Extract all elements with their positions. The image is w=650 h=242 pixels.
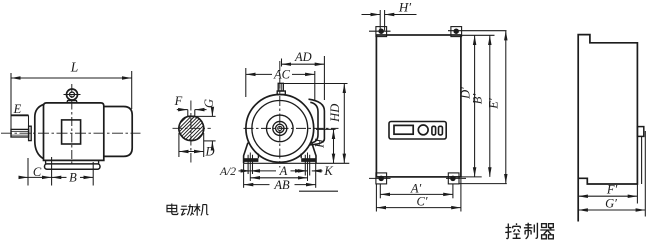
dimension C (21, 157, 52, 186)
电 (172, 204, 178, 215)
front view vertical centerline (279, 61, 281, 168)
dimension E (11, 115, 29, 126)
side profile outline (578, 35, 637, 222)
terminal box bump outer (309, 99, 325, 145)
机 (194, 204, 200, 216)
mounting bracket bottom-right (446, 173, 466, 184)
器 (542, 224, 554, 228)
dimension K (296, 170, 323, 172)
dimension F (177, 110, 207, 117)
eyebolt ring (67, 89, 78, 100)
svg-text:L: L (70, 60, 79, 75)
svg-text:C: C (33, 165, 42, 179)
display window (394, 125, 413, 134)
svg-text:E′: E′ (487, 98, 501, 110)
horizontal centerline of shaft (1, 132, 141, 134)
stator outer circle (246, 94, 314, 162)
dimension B' (489, 35, 491, 177)
svg-text:B′: B′ (471, 94, 485, 105)
svg-text:B: B (69, 170, 77, 184)
svg-text:F′: F′ (606, 183, 618, 197)
eyebolt stub front (278, 83, 283, 91)
rear end bell (104, 107, 132, 157)
button 2 (439, 126, 443, 135)
svg-text:A: A (279, 164, 288, 178)
动 (181, 206, 188, 215)
foot webs (46, 160, 99, 164)
motor body frame (44, 103, 104, 160)
door handle (637, 127, 643, 137)
left foot hole lines (248, 155, 252, 174)
svg-text:H′: H′ (398, 0, 411, 15)
dimension HD (284, 84, 348, 164)
right foot hole lines (305, 155, 309, 176)
svg-text:H: H (313, 138, 327, 149)
bearing boss circle (273, 121, 287, 135)
front end bell bulge (35, 104, 44, 158)
mounting bracket bottom-left (369, 173, 391, 184)
svg-text:A′: A′ (410, 182, 422, 196)
shaft section circle with key flat (179, 116, 204, 140)
left foot (244, 143, 248, 164)
svg-text:AC: AC (273, 68, 291, 82)
right edge extension (636, 184, 638, 204)
frame circle (252, 100, 308, 156)
mounting bracket top-left (369, 27, 391, 37)
cabinet body (376, 35, 461, 177)
dimension G (196, 107, 216, 151)
svg-text:HD: HD (328, 104, 342, 123)
dimension L (11, 71, 132, 129)
dimension E' (505, 31, 507, 184)
dimension F' (578, 195, 637, 197)
end-bracket hub circle (267, 115, 294, 142)
svg-text:G: G (202, 99, 216, 108)
svg-text:AD: AD (294, 50, 312, 64)
right-side extension lines (448, 31, 507, 184)
dimension D (179, 133, 204, 157)
mounting bracket top-right (451, 27, 462, 37)
dimension D' (474, 35, 476, 177)
terminal box on body (62, 120, 81, 144)
dimension AC (246, 68, 315, 101)
left foot pad (244, 158, 259, 162)
制 (524, 223, 533, 239)
label 电动机 (motor) (167, 204, 208, 216)
control panel (389, 122, 446, 140)
dimension A/2 leader (239, 170, 251, 172)
ground line under feet (244, 162, 350, 164)
shaft shoulder (29, 126, 32, 140)
door edge line (641, 136, 643, 184)
foot bar (45, 164, 101, 169)
dimension A' (380, 184, 453, 198)
shaft (11, 129, 29, 137)
dimension AB (244, 163, 316, 188)
shaft chamfer lines (11, 131, 29, 135)
eyebolt boss (67, 101, 77, 103)
dimension AD (282, 56, 325, 100)
stray base line (299, 190, 338, 192)
button 1 (432, 126, 436, 135)
foot hole centerlines (250, 153, 307, 182)
right foot (312, 143, 316, 164)
svg-text:A/2: A/2 (219, 166, 236, 178)
控 (505, 224, 511, 239)
dimension A (250, 171, 307, 178)
svg-text:F: F (174, 94, 183, 108)
svg-text:C′: C′ (416, 195, 427, 209)
dimension H' (362, 10, 417, 31)
dimension H (316, 129, 336, 163)
knob (418, 125, 428, 135)
label 控制器 (controller) (505, 223, 554, 239)
dimension G' (578, 131, 645, 217)
section hatching (170, 104, 216, 143)
right foot pad (301, 158, 316, 162)
vertical centerline through eyebolt (71, 84, 73, 164)
shaft circle (276, 124, 284, 132)
dimension B (52, 162, 94, 186)
svg-text:G′: G′ (605, 197, 617, 211)
dimension C' (376, 179, 461, 212)
svg-text:D: D (204, 145, 214, 159)
svg-text:AB: AB (273, 178, 290, 192)
terminal box bump inner (right of circle) (310, 102, 318, 143)
eyebolt cross tick (64, 94, 81, 96)
section centerlines (173, 127, 211, 129)
front view horizontal centerline (244, 127, 339, 129)
svg-text:E: E (13, 102, 22, 116)
svg-text:K: K (323, 164, 333, 178)
